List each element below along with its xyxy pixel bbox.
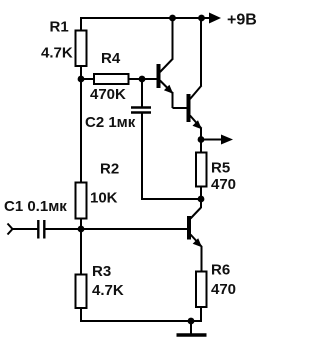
- svg-text:4.7K: 4.7K: [92, 282, 124, 299]
- junction node rail/Q2 collector: [198, 15, 205, 22]
- resistor R3 body: [76, 275, 87, 309]
- wire input to C1: [12, 228, 38, 230]
- wire top +9V rail: [81, 17, 212, 19]
- resistor R2 body: [76, 183, 87, 219]
- wire R4 left: [81, 78, 94, 80]
- junction node rail/Q1 collector: [169, 15, 176, 22]
- svg-text:C1 0.1мк: C1 0.1мк: [4, 198, 67, 215]
- ground symbol bar: [177, 333, 207, 336]
- wire Q1 collector to rail: [172, 18, 174, 59]
- svg-text:R5: R5: [211, 160, 230, 177]
- wire node to Q3 collector: [200, 199, 202, 208]
- junction node output: [198, 136, 205, 143]
- wire output node to arrow: [201, 139, 223, 141]
- svg-text:C2 1мк: C2 1мк: [85, 114, 136, 131]
- junction node ground: [188, 318, 195, 325]
- wire C2 to R5 bottom node: [141, 198, 201, 200]
- output arrow: [221, 135, 233, 145]
- wire Q2 collector to rail: [200, 18, 202, 86]
- svg-text:R4: R4: [101, 50, 121, 67]
- wire R4 right to Q1 base: [129, 78, 157, 80]
- wire bottom ground rail: [80, 320, 202, 322]
- resistor R1 body: [76, 31, 87, 67]
- wire R1 bottom to R2 top: [80, 65, 82, 183]
- wire R2 bottom to R3 top: [80, 217, 82, 275]
- svg-text:R6: R6: [211, 262, 230, 279]
- svg-text:4.7K: 4.7K: [41, 45, 73, 62]
- svg-text:R1: R1: [50, 19, 69, 36]
- wire R3 bottom stub: [80, 307, 82, 322]
- ground stub: [190, 321, 192, 334]
- svg-text:+9В: +9В: [227, 12, 257, 29]
- wire node to C2 top: [141, 79, 143, 107]
- wire C2 bottom down: [141, 113, 143, 200]
- wire R5 bottom to node: [200, 186, 202, 200]
- svg-text:470: 470: [211, 176, 236, 193]
- junction node R5/Q3 collector: [198, 196, 205, 203]
- junction node R1/R4: [78, 76, 85, 83]
- svg-text:R2: R2: [100, 161, 119, 178]
- wire R6 bottom stub: [200, 306, 202, 322]
- svg-text:R3: R3: [92, 263, 111, 280]
- junction node R4/C2/Q1 base: [139, 76, 146, 83]
- resistor R4 body: [94, 74, 129, 84]
- wire Q1 emitter to Q2 base: [173, 107, 187, 109]
- resistor R6 body: [196, 272, 207, 308]
- svg-text:10K: 10K: [90, 190, 118, 207]
- power +9V arrow: [209, 13, 221, 24]
- resistor R5 body: [196, 153, 207, 187]
- wire R1 top stub: [80, 17, 82, 31]
- wire Q1 emitter down: [172, 92, 174, 108]
- transistor Q2: [187, 86, 202, 130]
- wire output node to R5 top: [200, 140, 202, 154]
- junction node input/divider: [78, 226, 85, 233]
- transistor Q3: [187, 208, 202, 248]
- svg-text:470K: 470K: [90, 86, 126, 103]
- transistor Q1: [157, 59, 174, 94]
- wire Q3 emitter to R6 top: [201, 246, 203, 272]
- wire C1 to base node: [45, 228, 81, 230]
- capacitor C1 plates: [38, 220, 44, 239]
- wire base node to Q3 base: [81, 228, 187, 230]
- capacitor C2 plates: [131, 108, 151, 113]
- input arrow chevron: [8, 224, 13, 235]
- svg-text:470: 470: [211, 281, 236, 298]
- wire Q2 emitter down to output node: [200, 128, 202, 140]
